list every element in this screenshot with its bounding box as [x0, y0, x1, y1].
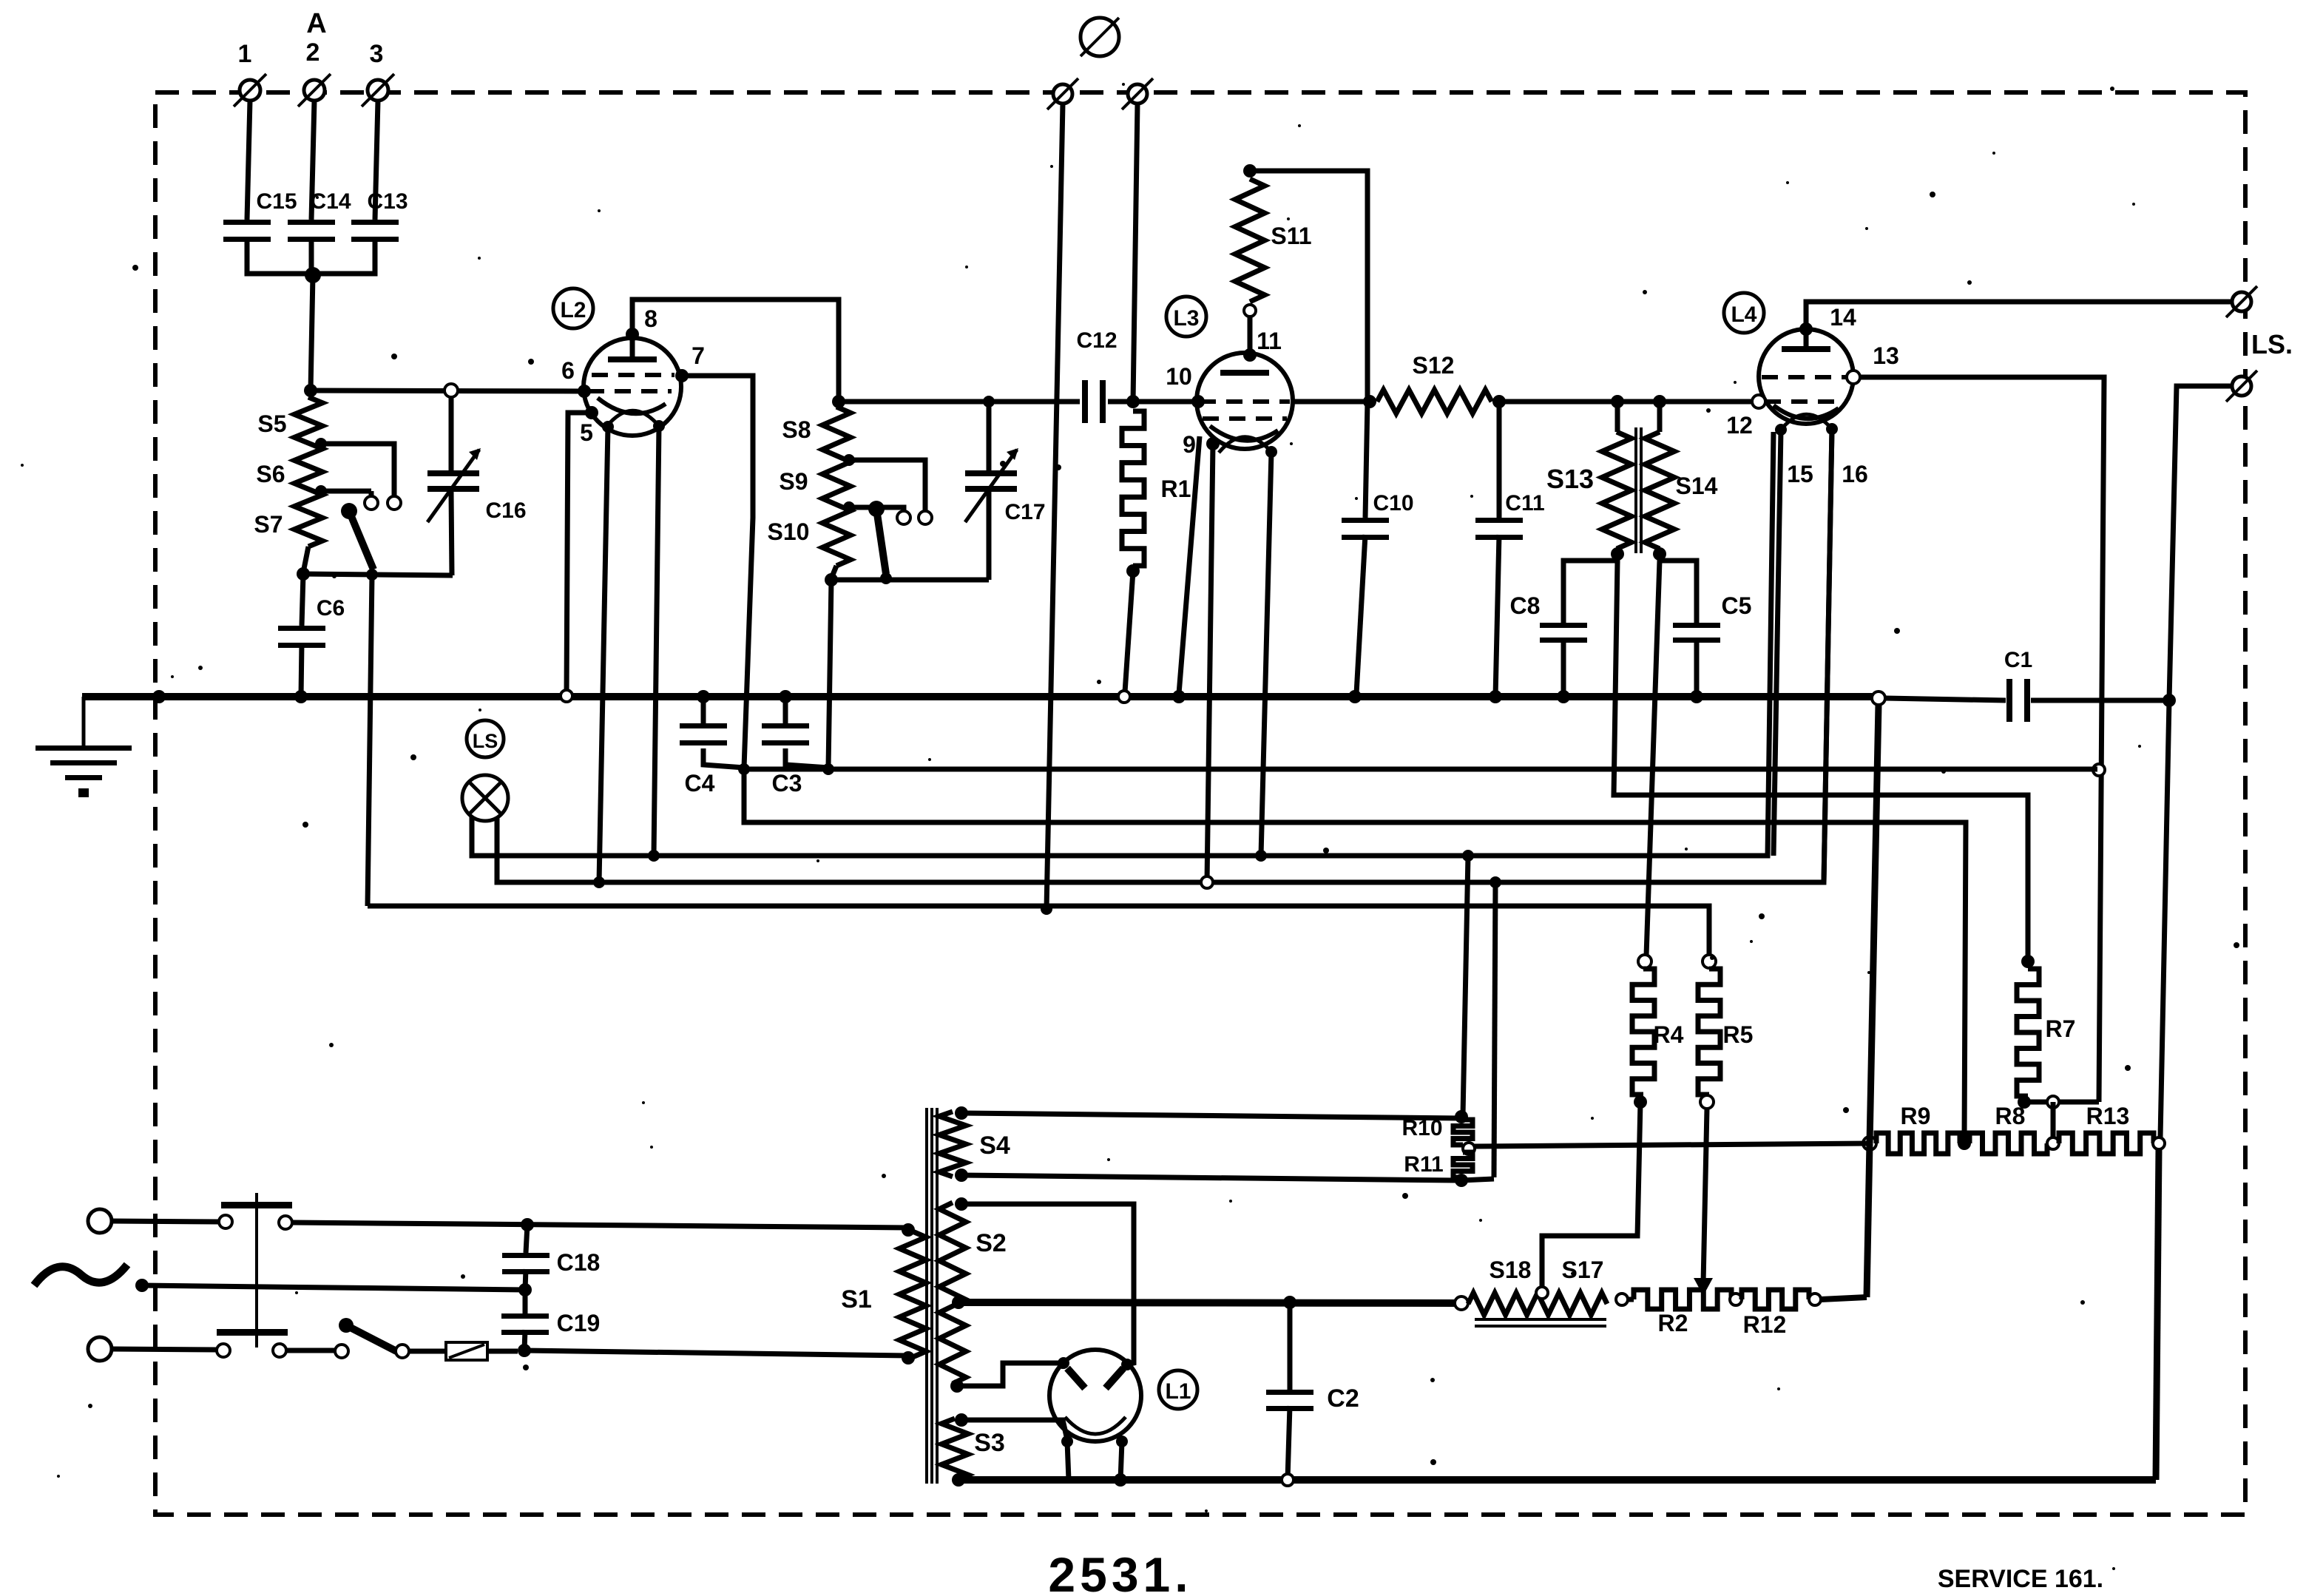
coil S3: [941, 1419, 1005, 1480]
node C1 LS junction: [2163, 694, 2176, 707]
contact circle l4: [396, 1345, 409, 1358]
node S4 top: [955, 1106, 968, 1120]
resistor R9: [1876, 1103, 1960, 1154]
svg-text:S5: S5: [257, 410, 286, 437]
wire pin5 elbow to bus: [567, 413, 592, 695]
coil S11: [1235, 179, 1312, 302]
node S2 top: [955, 1197, 968, 1211]
wire S2 top to L1 anode: [961, 1204, 1134, 1365]
svg-text:C5: C5: [1722, 592, 1752, 619]
L1 filament pin right: [1116, 1436, 1128, 1447]
node R9/R8 junction: [1958, 1137, 1971, 1150]
node C2 top: [1283, 1296, 1296, 1309]
label L2: [553, 288, 593, 328]
text SERVICE 161.: [1938, 1565, 2103, 1593]
node R13 right circle: [2153, 1137, 2165, 1149]
switch bridge upper: [221, 1202, 292, 1208]
LS terminal 1: [2226, 286, 2257, 317]
svg-text:C16: C16: [485, 498, 526, 523]
svg-text:A: A: [306, 8, 326, 39]
mains terminal upper: [88, 1209, 112, 1233]
node S1 top: [902, 1223, 915, 1237]
svg-text:16: 16: [1842, 461, 1868, 487]
L2 pin 5 node: [580, 406, 598, 446]
svg-text:1: 1: [238, 40, 252, 68]
node S8 top junction: [832, 395, 845, 408]
wire pivot drop to W5: [368, 575, 372, 906]
node P1 drop on W5: [1041, 903, 1052, 915]
valve L1 envelope: [1049, 1350, 1141, 1441]
wire C14 to junction: [309, 237, 314, 274]
wire terminal2 to C14: [311, 101, 314, 220]
svg-text:C15: C15: [256, 189, 297, 214]
svg-text:R5: R5: [1723, 1021, 1754, 1048]
node R2/R12 circle: [1730, 1294, 1742, 1305]
capacitor C14: [288, 189, 351, 242]
wire R10 drop: [1463, 856, 1468, 1115]
valve L2 envelope: [584, 338, 681, 436]
wire C15 to junction: [247, 237, 311, 274]
wire S10 bottom: [831, 566, 836, 578]
node S4 bottom: [955, 1169, 968, 1182]
wire to fuse: [409, 1349, 446, 1354]
wire pin9 drop to W4: [1207, 444, 1213, 882]
coil S12: [1377, 352, 1492, 413]
L3 pin 10: [1166, 363, 1205, 408]
wire S4 top to R10: [961, 1113, 1461, 1118]
node R7 top: [2021, 955, 2035, 968]
svg-text:C4: C4: [685, 770, 715, 797]
node switch2 pivot: [880, 572, 892, 584]
wire lower to S1: [524, 1350, 908, 1356]
node R7 bottom circle: [2047, 1096, 2059, 1108]
svg-text:R9: R9: [1901, 1103, 1931, 1129]
switch arm band: [868, 501, 886, 574]
node C2 bottom circle: [1282, 1474, 1294, 1486]
L3 pin 9: [1183, 431, 1220, 458]
node S3 bottom: [952, 1473, 965, 1487]
node selector dot: [135, 1279, 149, 1292]
ground bus wire: [82, 693, 1877, 700]
svg-text:C2: C2: [1327, 1384, 1359, 1413]
svg-text:C18: C18: [557, 1249, 601, 1276]
L3 filament pin right: [1265, 446, 1277, 458]
wire S10-bottom to C17 bottom: [831, 578, 989, 583]
contact circle tap2: [365, 496, 378, 510]
svg-text:14: 14: [1830, 304, 1856, 331]
contact circle l1: [217, 1344, 230, 1357]
wire L3 cathode drop to bus: [1179, 436, 1200, 694]
wire W1: [744, 767, 2097, 772]
node pin5 wire on bus: [561, 690, 572, 702]
L4 pin 12: [1726, 395, 1765, 439]
wire R4 to S18 tap: [1542, 1102, 1640, 1287]
node C10 on bus: [1348, 690, 1362, 703]
contact circle tap1: [388, 496, 401, 510]
L2 anode: [608, 334, 657, 362]
L3 pin 11: [1243, 328, 1282, 362]
L2 filament pin right: [653, 420, 665, 432]
node C17 top: [983, 396, 995, 408]
wire L2 filament-left to W4: [599, 427, 608, 882]
svg-text:L4: L4: [1731, 302, 1756, 327]
wire S2 tap thick: [958, 1302, 1455, 1303]
wire S17 to R2: [1628, 1297, 1634, 1302]
L3 filament arc: [1219, 437, 1271, 453]
stub C3 to W1: [785, 748, 828, 768]
resistor R12: [1742, 1290, 1809, 1338]
node tap S5/S6: [315, 438, 327, 450]
svg-text:C13: C13: [367, 189, 408, 214]
svg-text:S1: S1: [841, 1285, 872, 1313]
wire selector mid: [142, 1285, 525, 1290]
capacitor C8: [1510, 592, 1587, 697]
node S12 left junction: [1363, 395, 1376, 408]
node S12 right junction: [1492, 395, 1506, 408]
wire S11 top to S12 junction: [1250, 171, 1367, 402]
node R1 on bus circle: [1118, 691, 1130, 703]
L3 anode: [1220, 370, 1269, 376]
node antenna junction: [305, 267, 321, 283]
capacitor C18: [502, 1225, 600, 1290]
wire pin14 to LS terminal: [1806, 302, 2242, 329]
svg-text:R2: R2: [1658, 1310, 1688, 1336]
node bus end circle: [1872, 692, 1885, 705]
svg-text:R4: R4: [1654, 1021, 1684, 1048]
svg-text:S2: S2: [976, 1229, 1007, 1257]
wire LS drop to R13: [2160, 700, 2169, 1137]
capacitor C11: [1475, 402, 1545, 697]
wire P2 drop to R1 junction: [1133, 104, 1137, 402]
mains terminal lower: [88, 1337, 112, 1361]
contact circle l2: [273, 1344, 286, 1357]
wire L1 fil-right down: [1120, 1441, 1122, 1480]
node C18/C19 mid: [518, 1283, 532, 1296]
AC symbol: [34, 1265, 127, 1285]
node R9 left circle: [1863, 1137, 1876, 1150]
wire S12 to L4 pin12: [1499, 399, 1753, 405]
wire R7 junction to V13: [2059, 1100, 2099, 1105]
wire R5 arrow to R2: [1703, 1109, 1707, 1283]
svg-text:R8: R8: [1995, 1103, 2026, 1129]
svg-text:C8: C8: [1510, 592, 1541, 619]
node R5 top circle: [1703, 955, 1716, 968]
bottom bus thick: [958, 1476, 2156, 1484]
resistor R13: [2059, 1103, 2154, 1154]
node R10 top: [1455, 1110, 1468, 1123]
switch arm mains: [339, 1318, 396, 1351]
node L2fil on W3: [648, 850, 660, 862]
node S10 bottom junction: [825, 573, 838, 586]
junction on bus at border: [152, 690, 166, 703]
L2 filament arc: [606, 410, 659, 427]
node C3 stub on W1: [822, 763, 834, 775]
svg-text:C19: C19: [557, 1310, 601, 1336]
node S18 left circle: [1455, 1296, 1468, 1310]
wire pin13 to V13: [1860, 377, 2104, 1102]
wire tap2 to contact: [321, 491, 371, 496]
wire S7 bottom to node: [303, 547, 308, 572]
wire J1 to L2 grid pin6: [311, 390, 584, 391]
terminal P1: [1047, 78, 1078, 109]
node S1 bottom: [902, 1351, 915, 1365]
wire S14-bottom elbow to C5: [1660, 554, 1697, 623]
coil S14: [1645, 432, 1718, 549]
node L3 drop on bus: [1172, 690, 1186, 703]
svg-text:LS.: LS.: [2251, 329, 2293, 359]
transformer core S13/S14: [1636, 427, 1641, 553]
transformer core: [927, 1108, 937, 1484]
svg-text:LS: LS: [473, 730, 498, 752]
wire LS2 to C1 node: [2169, 386, 2232, 700]
wire L2 filament-right to W3: [654, 426, 659, 856]
L2 pin 7: [675, 342, 705, 382]
capacitor C2: [1266, 1302, 1359, 1480]
antenna terminal 3: [362, 40, 394, 106]
node S11 bottom circle: [1244, 305, 1256, 317]
terminal P2: [1122, 78, 1153, 109]
svg-text:9: 9: [1183, 431, 1196, 458]
wire R1 to bus: [1125, 571, 1133, 692]
svg-text:R1: R1: [1161, 476, 1191, 502]
pickup terminal circle: [1081, 18, 1119, 56]
stub S13 top: [1615, 402, 1620, 432]
contact circle u1: [219, 1215, 232, 1228]
wire W2: [744, 769, 1966, 1139]
label L1: [1159, 1370, 1197, 1409]
wire tap to contact left: [849, 507, 904, 510]
wire S7-bottom to C16 bottom: [303, 574, 453, 575]
node R10/R11 circle: [1463, 1143, 1475, 1154]
wire tap to contact right: [849, 460, 925, 510]
wire R7 to R8 junction: [2051, 1102, 2056, 1143]
L2 pin 8: [626, 305, 657, 341]
wire pin7 drop to W1: [682, 376, 753, 768]
wire R10 tap to R9: [1475, 1143, 1870, 1146]
capacitor C3: [762, 697, 809, 797]
wire mains upper: [112, 1221, 219, 1222]
svg-text:L2: L2: [560, 298, 586, 322]
resistor R11: [1404, 1152, 1472, 1177]
L4 filament pin 15: [1775, 424, 1813, 487]
node tap S9/S10: [843, 501, 855, 513]
node R11 drop on W4: [1490, 876, 1501, 888]
variable capacitor C17: [965, 402, 1046, 580]
svg-text:S8: S8: [782, 416, 811, 443]
node L2fil on W4: [593, 876, 605, 888]
label L3: [1166, 297, 1206, 337]
node switch pivot: [366, 569, 378, 581]
node L1 on bottom bus: [1114, 1473, 1127, 1487]
L4 pin 14: [1799, 304, 1856, 336]
L1 pin right: [1121, 1359, 1133, 1370]
wire C1 to LS node: [2031, 698, 2169, 703]
contact circle l3: [335, 1345, 348, 1358]
svg-text:SERVICE 161.: SERVICE 161.: [1938, 1565, 2103, 1593]
resistor R10: [1401, 1116, 1472, 1145]
S18 underline: [1475, 1319, 1606, 1326]
node S7 bottom junction: [297, 567, 310, 581]
coil S2: [939, 1203, 1007, 1384]
capacitor C4: [680, 697, 727, 797]
wire C12 to R1 junction: [1108, 399, 1197, 405]
L4 cathode arc: [1774, 405, 1839, 419]
svg-text:7: 7: [692, 342, 705, 369]
svg-text:11: 11: [1257, 328, 1282, 354]
svg-text:R7: R7: [2046, 1015, 2076, 1042]
svg-text:C10: C10: [1373, 491, 1413, 515]
node C4 on bus: [697, 690, 710, 703]
fuse: [446, 1342, 487, 1360]
coil S13: [1546, 432, 1632, 549]
wire terminal3 to C13: [375, 101, 378, 220]
node grid junction J1: [304, 384, 317, 397]
antenna terminal 1: [234, 40, 266, 106]
node S13 bottom: [1611, 547, 1624, 561]
wire mains lower 2: [286, 1348, 335, 1353]
wire L3 to S12: [1293, 399, 1370, 405]
wire S13-bottom elbow to C8: [1563, 554, 1617, 623]
svg-text:S3: S3: [974, 1429, 1005, 1457]
node C6 on bus: [294, 690, 308, 703]
node W1 left: [738, 763, 750, 775]
node R1 top junction: [1126, 395, 1140, 408]
wire terminal1 to C15: [247, 101, 250, 220]
svg-text:3: 3: [370, 40, 384, 68]
svg-text:S14: S14: [1676, 473, 1718, 499]
node C5 on bus: [1690, 690, 1703, 703]
svg-text:C1: C1: [2004, 648, 2032, 672]
model number 2531.: [1048, 1547, 1192, 1596]
svg-text:6: 6: [561, 357, 575, 384]
node S13 top: [1611, 395, 1624, 408]
node S14 top: [1653, 395, 1666, 408]
wire P1 drop to W5: [1047, 104, 1063, 909]
node C19 bottom: [518, 1344, 531, 1357]
node pin9 end on W4: [1201, 876, 1213, 888]
L3 grid dashes: [1200, 402, 1290, 419]
wire W4: [497, 429, 1832, 882]
capacitor C5: [1673, 592, 1751, 697]
svg-text:S10: S10: [768, 518, 810, 545]
wire L1 fil-left down: [1067, 1441, 1069, 1480]
wire pin16 drop to W4: [1824, 429, 1832, 882]
node S2 mid tap: [952, 1296, 965, 1309]
svg-text:5: 5: [580, 419, 593, 446]
svg-text:2531.: 2531.: [1048, 1547, 1192, 1596]
node C8 on bus: [1557, 690, 1570, 703]
wire S14 drop to R4: [1646, 561, 1660, 956]
pilot lamp LS: [462, 775, 508, 821]
capacitor C6: [278, 574, 345, 697]
wire R11 to W4 drop: [1461, 1179, 1494, 1180]
L4 anode: [1782, 329, 1830, 352]
resistor R7: [2017, 969, 2075, 1096]
capacitor C15: [223, 189, 297, 242]
L1 pin left: [1058, 1357, 1069, 1369]
capacitor C1: [2004, 648, 2032, 722]
svg-text:15: 15: [1787, 461, 1813, 487]
L1 filament pin left: [1061, 1436, 1073, 1447]
svg-text:R12: R12: [1743, 1311, 1787, 1338]
svg-text:S4: S4: [979, 1132, 1010, 1160]
potentiometer S18 S17: [1468, 1257, 1607, 1315]
svg-text:R11: R11: [1404, 1152, 1443, 1177]
svg-text:C14: C14: [310, 189, 351, 214]
node L3fil on W3: [1255, 850, 1267, 862]
coil S4: [939, 1112, 1010, 1177]
variable capacitor C16: [427, 397, 527, 575]
capacitor C13: [351, 189, 408, 242]
wire L2 anode to S8 top: [632, 300, 839, 402]
wire W5: [368, 906, 1709, 956]
thick drop R13 to bottom bus: [2156, 1149, 2159, 1480]
node S17 right circle: [1616, 1294, 1628, 1305]
ground symbol: [35, 697, 132, 797]
L4 grid dashes: [1762, 377, 1850, 402]
node tap S6/S7: [315, 485, 327, 497]
node R11 bottom: [1455, 1174, 1468, 1187]
node C11 on bus: [1489, 690, 1502, 703]
label LS.: [2251, 329, 2293, 359]
antenna terminal 2: [298, 38, 331, 106]
wire C13 to junction: [311, 237, 375, 274]
coil S5 S6 S7: [254, 397, 322, 547]
svg-text:L1: L1: [1165, 1379, 1191, 1404]
wire antenna junction down: [311, 275, 313, 390]
svg-text:C17: C17: [1004, 500, 1045, 524]
L3 cathode arc: [1210, 426, 1278, 441]
svg-text:10: 10: [1166, 363, 1192, 390]
node C18 top: [521, 1218, 534, 1231]
svg-text:S7: S7: [254, 511, 283, 538]
node C3 on bus: [779, 690, 792, 703]
contact circle u2: [279, 1216, 292, 1229]
wire fuse to node: [487, 1349, 518, 1354]
node S3 top: [955, 1413, 968, 1427]
stub S14 top: [1657, 402, 1663, 432]
L2 grid dashes: [588, 375, 674, 391]
svg-text:L3: L3: [1173, 306, 1199, 331]
L2 cathode arc: [598, 398, 666, 413]
wire mains lower: [112, 1349, 217, 1350]
L1 anode bars: [1067, 1368, 1123, 1388]
L4 pin 13: [1847, 342, 1899, 384]
resistor R4: [1632, 969, 1684, 1095]
contact circle S-left: [897, 511, 910, 524]
svg-text:S13: S13: [1546, 464, 1594, 494]
L4 filament pin 16: [1826, 423, 1868, 487]
node V13 on W1: [2093, 764, 2105, 776]
wire S3 top to L1 filament: [961, 1420, 1067, 1440]
wire mains upper 2: [292, 1223, 908, 1228]
contact circle S-right: [919, 511, 932, 524]
resistor R1: [1122, 411, 1191, 566]
wire R7bottom link: [2024, 1100, 2047, 1105]
svg-text:S12: S12: [1413, 352, 1455, 379]
resistor R5: [1698, 969, 1753, 1095]
label A: [306, 8, 326, 39]
svg-text:S9: S9: [779, 468, 808, 495]
wire S11 to pin11: [1248, 317, 1253, 354]
node R7 bottom: [2018, 1095, 2031, 1109]
resistor R8: [1969, 1103, 2047, 1154]
label LS circle: [467, 720, 504, 757]
node R1 bottom: [1126, 564, 1140, 578]
L2 filament pin left: [602, 421, 614, 433]
wire S8top to C12: [839, 399, 1080, 405]
svg-text:C12: C12: [1076, 328, 1117, 353]
